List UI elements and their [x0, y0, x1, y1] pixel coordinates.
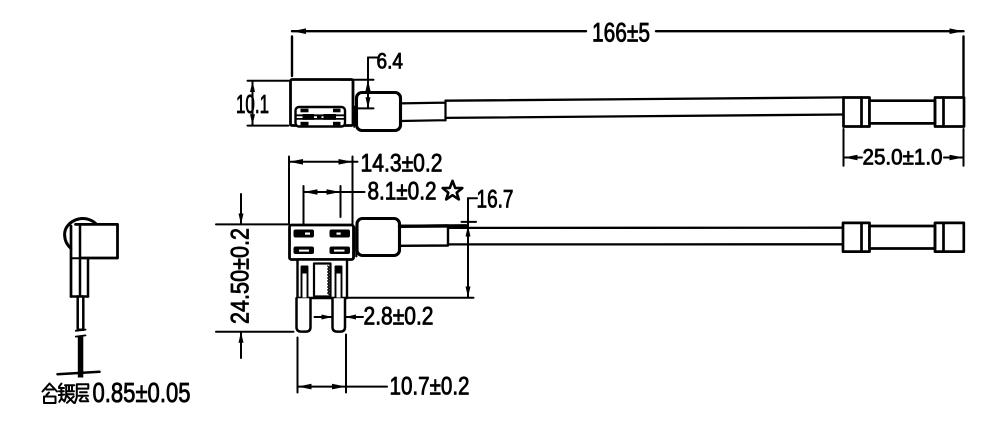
svg-text:6.4: 6.4: [377, 49, 404, 74]
view1 wire: [446, 97, 844, 118]
extension line left of 166: [291, 37, 293, 77]
svg-text:14.3±0.2: 14.3±0.2: [361, 150, 443, 178]
seat plane reference line: [347, 297, 474, 299]
star mark: [443, 181, 463, 200]
dim 8.1±0.2 line and arrows: [304, 189, 365, 195]
svg-text:10.1: 10.1: [236, 89, 269, 119]
view1 slot contacts (black marks): [301, 109, 341, 126]
view3 blade upper segment: [78, 297, 84, 330]
extension line right of 166: [962, 37, 964, 96]
svg-text:16.7: 16.7: [477, 186, 514, 214]
svg-text:10.7±0.2: 10.7±0.2: [390, 373, 470, 401]
view2 right channel contact: [336, 268, 342, 274]
view2 center block: [314, 264, 331, 297]
dim 166±5 dimension line: [292, 28, 964, 34]
view3 inner line: [79, 224, 82, 296]
view3 lower inner line: [87, 258, 90, 297]
view2 slots (black): [294, 230, 351, 255]
view2 left blade channel: [302, 267, 308, 299]
view2 crimp barrel: [357, 219, 400, 256]
label 含镀层 (hand-drawn glyphs): [43, 384, 89, 404]
dim 16.7 leader and arrows: [462, 198, 478, 297]
view3 bottom cap: [71, 295, 88, 298]
svg-text:166±5: 166±5: [592, 18, 650, 48]
view3 top arc: [65, 218, 96, 248]
view2 ferrule: [400, 226, 449, 246]
dim 14.3±0.2 ext lines: [288, 157, 290, 224]
dim 24.50±0.2 arrows: [239, 194, 244, 358]
view2 body: [290, 225, 354, 260]
24.50 top reference line: [216, 223, 289, 225]
view1 terminal lines between housing and crimp: [353, 107, 355, 128]
view3 blade tip tick: [58, 372, 100, 374]
view3 crimp block: [76, 224, 118, 258]
dim 14.3±0.2 line and arrows: [289, 159, 358, 165]
dim 10.7±0.2 ext lines: [297, 338, 299, 393]
view2 wire: [448, 228, 843, 245]
svg-text:25.0±1.0: 25.0±1.0: [863, 145, 943, 170]
view1 wire end sleeve: [844, 98, 965, 127]
24.50 bottom reference line: [216, 331, 294, 333]
dim 6.4 leader and arrows: [340, 58, 377, 109]
svg-text:2.8±0.2: 2.8±0.2: [364, 303, 434, 331]
svg-text:24.50±0.2: 24.50±0.2: [227, 228, 255, 324]
view2 mid-section housing: [298, 260, 348, 299]
view2 right blade channel: [336, 267, 342, 299]
dim 10.1 line and arrows: [250, 81, 255, 125]
view3 blade break marks: [76, 330, 86, 331]
view2 right leg: [333, 298, 346, 331]
svg-text:0.85±0.05: 0.85±0.05: [93, 377, 191, 408]
dim 8.1±0.2 ext lines: [303, 186, 305, 224]
view2 left channel contact: [302, 268, 308, 274]
view1 housing body: [291, 80, 354, 126]
svg-text:8.1±0.2: 8.1±0.2: [368, 178, 437, 206]
view1 crimp barrel: [357, 93, 401, 131]
view3 housing left edge: [70, 226, 73, 297]
view2 wire end sleeve: [843, 223, 964, 252]
dim 25.0±1.0 ext lines: [843, 129, 845, 166]
view2 left leg: [297, 298, 311, 331]
dim 10.7±0.2 line and arrows: [298, 384, 388, 390]
view1 slot seam lines: [297, 114, 345, 116]
view3 blade lower segment: [78, 336, 84, 378]
view2 slot notches (white): [299, 233, 345, 252]
view1 wire neck: [401, 101, 446, 121]
dim 2.8±0.2 arrows: [315, 315, 364, 320]
view2 terminal lines between body and crimp: [354, 227, 356, 257]
view3 seam: [71, 257, 80, 259]
view1 fuse slot frame: [296, 107, 346, 127]
dim 25.0±1.0 line and arrows: [844, 155, 964, 161]
view2 center block serration: [328, 266, 330, 295]
dim 10.1 ext lines: [248, 80, 289, 82]
